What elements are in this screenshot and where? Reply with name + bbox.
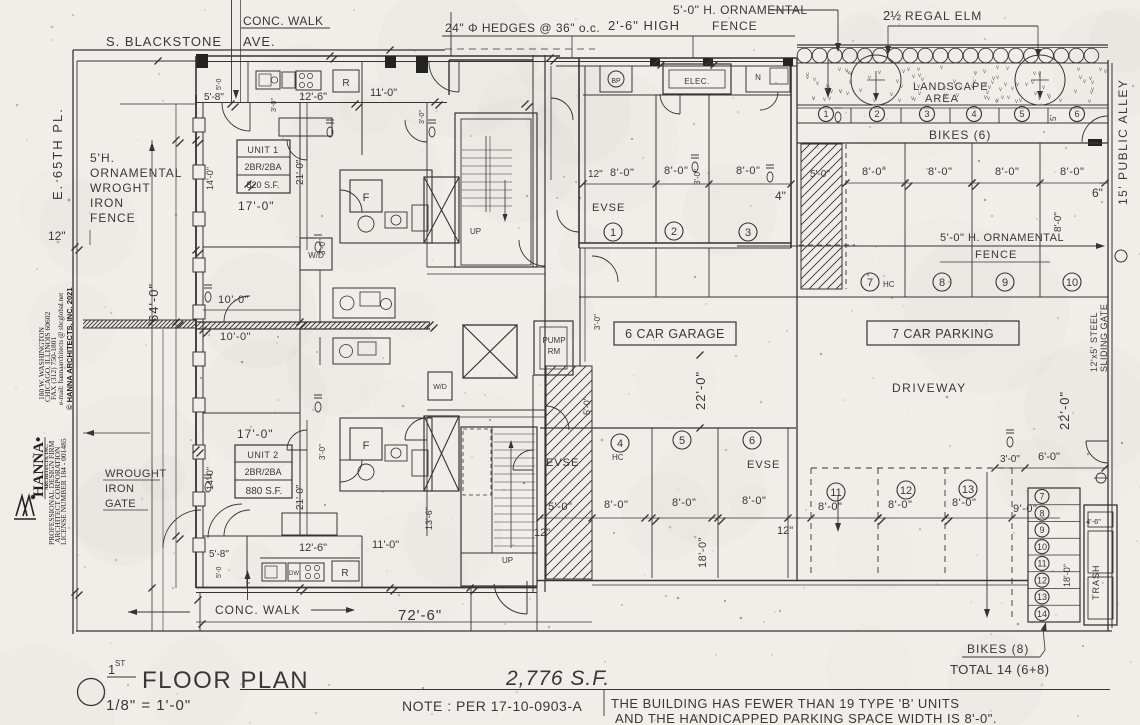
svg-text:12: 12 <box>1037 575 1047 585</box>
svg-text:R: R <box>342 78 349 89</box>
svg-text:v: v <box>917 67 920 73</box>
svg-text:v: v <box>1011 86 1014 92</box>
svg-text:3'-0": 3'-0" <box>1000 454 1020 465</box>
svg-text:NOTE : PER 17-10-0903-A: NOTE : PER 17-10-0903-A <box>402 698 583 714</box>
svg-text:5'-0": 5'-0" <box>582 397 592 415</box>
svg-text:v: v <box>806 72 809 78</box>
svg-text:v: v <box>999 87 1002 93</box>
svg-text:7: 7 <box>867 277 873 289</box>
svg-text:DRIVEWAY: DRIVEWAY <box>892 381 967 395</box>
svg-text:8'-0": 8'-0" <box>664 165 688 177</box>
svg-text:TOTAL 14 (6+8): TOTAL 14 (6+8) <box>950 662 1050 677</box>
svg-text:13: 13 <box>1037 592 1047 602</box>
svg-text:22'-0": 22'-0" <box>693 371 708 410</box>
svg-text:14: 14 <box>1037 609 1047 619</box>
svg-text:7 CAR PARKING: 7 CAR PARKING <box>892 327 994 341</box>
svg-text:AND THE HANDICAPPED PARKING SP: AND THE HANDICAPPED PARKING SPACE WIDTH … <box>615 711 997 725</box>
svg-text:72'-6": 72'-6" <box>398 607 442 624</box>
svg-text:v: v <box>846 91 849 97</box>
svg-text:3'-0": 3'-0" <box>318 239 327 255</box>
svg-text:2: 2 <box>874 109 879 119</box>
svg-text:v: v <box>898 98 901 104</box>
svg-text:12: 12 <box>900 485 912 497</box>
svg-text:v: v <box>1034 91 1037 97</box>
svg-text:21'-0": 21'-0" <box>295 484 306 510</box>
svg-text:v: v <box>1104 69 1107 75</box>
svg-text:HC: HC <box>612 453 624 462</box>
svg-text:v: v <box>812 96 815 102</box>
svg-text:v: v <box>838 67 841 73</box>
svg-text:WROGHT: WROGHT <box>90 181 151 195</box>
svg-text:11'-0": 11'-0" <box>370 87 397 99</box>
svg-text:e-mail: hannaarchitects @ sbcg: e-mail: hannaarchitects @ sbcglobal.net <box>57 293 65 405</box>
svg-text:6: 6 <box>749 435 755 447</box>
svg-text:v: v <box>828 96 831 102</box>
svg-text:UP: UP <box>502 556 513 565</box>
svg-text:ST: ST <box>115 659 125 668</box>
svg-text:v: v <box>1090 90 1093 96</box>
svg-text:R: R <box>341 568 348 579</box>
svg-text:DW: DW <box>289 571 299 577</box>
svg-text:CONC. WALK: CONC. WALK <box>215 603 301 617</box>
svg-text:EVSE: EVSE <box>592 202 625 214</box>
svg-text:5'H.: 5'H. <box>90 151 115 165</box>
svg-text:AVE.: AVE. <box>243 34 276 49</box>
svg-text:v: v <box>974 71 977 77</box>
svg-text:4: 4 <box>617 438 623 450</box>
svg-text:v: v <box>1099 67 1102 73</box>
svg-text:1: 1 <box>610 227 616 239</box>
svg-text:12": 12" <box>48 229 66 243</box>
svg-text:8'-0": 8'-0" <box>862 166 886 178</box>
svg-text:4: 4 <box>971 109 976 119</box>
svg-text:8'-0": 8'-0" <box>888 499 912 511</box>
svg-text:v: v <box>826 84 829 90</box>
svg-text:v: v <box>1031 80 1034 86</box>
svg-text:v: v <box>1048 95 1051 101</box>
svg-text:5'-0": 5'-0" <box>810 169 830 180</box>
svg-text:LANDSCAPE: LANDSCAPE <box>913 81 989 93</box>
svg-text:18'-0": 18'-0" <box>1062 564 1072 587</box>
svg-text:5: 5 <box>1019 109 1024 119</box>
svg-text:1/8" = 1'-0": 1/8" = 1'-0" <box>106 697 191 714</box>
svg-text:8'-0": 8'-0" <box>995 166 1019 178</box>
svg-text:v: v <box>987 96 990 102</box>
svg-text:5'-0: 5'-0 <box>216 78 223 90</box>
svg-text:v: v <box>1019 98 1022 104</box>
svg-text:v: v <box>1004 82 1007 88</box>
svg-text:11'-0": 11'-0" <box>372 539 399 551</box>
svg-text:12": 12" <box>777 525 793 537</box>
svg-text:v: v <box>1083 79 1086 85</box>
svg-text:12'-6": 12'-6" <box>299 542 327 554</box>
svg-text:v: v <box>907 67 910 73</box>
svg-text:PUMP: PUMP <box>542 336 565 345</box>
svg-text:CONC. WALK: CONC. WALK <box>243 14 324 28</box>
svg-text:SLIDING GATE: SLIDING GATE <box>1099 304 1109 372</box>
svg-text:FENCE: FENCE <box>712 19 758 33</box>
svg-text:17'-0": 17'-0" <box>237 427 274 441</box>
svg-text:v: v <box>890 92 893 98</box>
svg-text:8'-0": 8'-0" <box>736 165 760 177</box>
svg-text:S. BLACKSTONE: S. BLACKSTONE <box>106 34 222 49</box>
svg-text:15' PUBLIC ALLEY: 15' PUBLIC ALLEY <box>1116 79 1130 205</box>
svg-text:v: v <box>1059 98 1062 104</box>
svg-text:13'-6": 13'-6" <box>424 507 434 530</box>
svg-text:11: 11 <box>1037 559 1046 569</box>
svg-text:v: v <box>913 97 916 103</box>
svg-text:RM: RM <box>548 347 561 356</box>
svg-text:v: v <box>896 79 899 85</box>
svg-text:8'-0": 8'-0" <box>672 497 696 509</box>
svg-text:10'-0": 10'-0" <box>218 294 249 306</box>
svg-text:v: v <box>830 89 833 95</box>
svg-text:8'-0": 8'-0" <box>928 166 952 178</box>
svg-text:v: v <box>816 81 819 87</box>
svg-text:v: v <box>1077 67 1080 73</box>
svg-text:v: v <box>1042 85 1045 91</box>
svg-text:2½: 2½ <box>883 8 901 23</box>
svg-text:2,776 S.F.: 2,776 S.F. <box>505 667 610 690</box>
svg-text:820 S.F.: 820 S.F. <box>246 180 279 190</box>
svg-text:22'-0": 22'-0" <box>1057 391 1072 430</box>
svg-text:21'-0": 21'-0" <box>295 159 306 185</box>
svg-text:v: v <box>859 88 862 94</box>
svg-text:F: F <box>363 192 370 204</box>
svg-text:6: 6 <box>1074 109 1079 119</box>
svg-text:REGAL ELM: REGAL ELM <box>905 9 982 23</box>
svg-text:10: 10 <box>1066 277 1078 289</box>
svg-text:2'-6" HIGH: 2'-6" HIGH <box>608 18 680 33</box>
svg-text:3: 3 <box>924 109 929 119</box>
svg-text:5'-0: 5'-0 <box>216 566 223 578</box>
svg-text:880 S.F.: 880 S.F. <box>246 486 283 497</box>
svg-text:64'-0": 64'-0" <box>146 283 161 322</box>
svg-text:8'-0": 8'-0" <box>1053 212 1064 232</box>
svg-text:UNIT 2: UNIT 2 <box>247 450 278 460</box>
svg-text:v: v <box>1025 82 1028 88</box>
svg-text:ELEC.: ELEC. <box>684 77 710 86</box>
svg-text:UP: UP <box>470 227 481 236</box>
svg-text:UNIT 1: UNIT 1 <box>247 145 278 155</box>
svg-text:LICENSE NUMBER 184 - 001485: LICENSE NUMBER 184 - 001485 <box>59 438 68 545</box>
svg-text:6": 6" <box>1092 186 1103 200</box>
svg-text:12'x5' STEEL: 12'x5' STEEL <box>1089 312 1099 372</box>
svg-text:5: 5 <box>679 435 685 447</box>
svg-text:8: 8 <box>1039 508 1044 518</box>
svg-text:BIKES (8): BIKES (8) <box>967 642 1029 656</box>
svg-text:FENCE: FENCE <box>975 249 1017 261</box>
svg-text:2BR/2BA: 2BR/2BA <box>244 467 281 477</box>
svg-text:v: v <box>1079 75 1082 81</box>
svg-text:9: 9 <box>1002 277 1008 289</box>
svg-text:6 CAR GARAGE: 6 CAR GARAGE <box>625 327 725 341</box>
svg-text:18'-0": 18'-0" <box>697 537 709 568</box>
svg-text:v: v <box>902 69 905 75</box>
svg-text:13: 13 <box>962 484 974 496</box>
svg-text:17'-0": 17'-0" <box>238 199 275 213</box>
svg-text:v: v <box>1015 99 1018 105</box>
svg-text:BIKES (6): BIKES (6) <box>929 128 991 142</box>
svg-text:8: 8 <box>939 277 945 289</box>
svg-text:8'-0": 8'-0" <box>610 167 634 179</box>
svg-text:8'-0": 8'-0" <box>1060 166 1084 178</box>
svg-text:5'-0" H. ORNAMENTAL: 5'-0" H. ORNAMENTAL <box>940 232 1064 244</box>
svg-text:3'-0": 3'-0" <box>271 98 278 112</box>
svg-text:12": 12" <box>588 169 603 180</box>
svg-text:2BR/2BA: 2BR/2BA <box>244 162 281 172</box>
svg-text:THE BUILDING HAS FEWER THAN 19: THE BUILDING HAS FEWER THAN 19 TYPE 'B' … <box>611 696 959 711</box>
svg-text:v: v <box>983 69 986 75</box>
svg-text:10: 10 <box>1037 542 1047 552</box>
svg-text:F: F <box>363 440 370 452</box>
svg-text:EVSE: EVSE <box>747 459 780 471</box>
svg-text:HC: HC <box>883 280 895 289</box>
svg-text:v: v <box>1088 99 1091 105</box>
svg-text:v: v <box>992 76 995 82</box>
svg-text:14'-0": 14'-0" <box>205 167 215 190</box>
svg-text:3: 3 <box>745 227 751 239</box>
svg-text:12'-6": 12'-6" <box>299 91 327 103</box>
svg-text:v: v <box>839 89 842 95</box>
svg-text:© HANNA ARCHITECTS, INC. 2021: © HANNA ARCHITECTS, INC. 2021 <box>65 288 74 411</box>
svg-text:v: v <box>823 97 826 103</box>
svg-text:3'-0": 3'-0" <box>693 169 702 185</box>
svg-text:4'-6": 4'-6" <box>1086 517 1101 526</box>
svg-text:v: v <box>1033 71 1036 77</box>
svg-text:AREA: AREA <box>925 93 959 105</box>
svg-text:W/D: W/D <box>433 384 447 391</box>
svg-text:3'-0": 3'-0" <box>318 444 327 460</box>
svg-text:v: v <box>996 65 999 71</box>
svg-text:v: v <box>1089 76 1092 82</box>
svg-text:3'-0": 3'-0" <box>593 314 602 330</box>
svg-text:ORNAMENTAL: ORNAMENTAL <box>90 166 182 180</box>
svg-text:v: v <box>878 70 881 76</box>
svg-text:GATE: GATE <box>105 498 136 510</box>
svg-text:TRASH: TRASH <box>1091 564 1101 600</box>
svg-text:14'-0": 14'-0" <box>205 467 215 490</box>
svg-text:7: 7 <box>1039 492 1044 502</box>
svg-text:v: v <box>996 75 999 81</box>
svg-text:v: v <box>1038 72 1041 78</box>
svg-text:8'-0": 8'-0" <box>952 497 976 509</box>
svg-text:24" Φ HEDGES @ 36" o.c.: 24" Φ HEDGES @ 36" o.c. <box>445 21 600 35</box>
svg-text:5'-8": 5'-8" <box>204 92 224 103</box>
svg-text:9: 9 <box>1039 525 1044 535</box>
svg-text:8'-0": 8'-0" <box>818 501 842 513</box>
svg-text:v: v <box>1007 95 1010 101</box>
svg-text:WROUGHT: WROUGHT <box>105 468 167 480</box>
svg-text:IRON: IRON <box>90 196 124 210</box>
svg-text:1: 1 <box>823 109 828 119</box>
svg-text:8'-0": 8'-0" <box>604 499 628 511</box>
svg-text:v: v <box>1074 89 1077 95</box>
svg-text:BP: BP <box>611 78 621 85</box>
svg-text:FENCE: FENCE <box>90 211 136 225</box>
svg-text:E. 65TH PL.: E. 65TH PL. <box>50 107 65 200</box>
svg-text:6'-0": 6'-0" <box>1038 451 1060 463</box>
svg-text:IRON: IRON <box>105 483 135 495</box>
svg-text:11: 11 <box>830 487 841 499</box>
svg-text:5': 5' <box>1049 115 1058 121</box>
svg-text:8'-0": 8'-0" <box>742 495 766 507</box>
svg-text:v: v <box>940 65 943 71</box>
svg-text:5'-8": 5'-8" <box>209 549 229 560</box>
svg-text:v: v <box>1006 66 1009 72</box>
svg-text:N: N <box>755 73 761 82</box>
svg-text:v: v <box>1001 95 1004 101</box>
svg-text:v: v <box>996 98 999 104</box>
svg-text:4": 4" <box>775 189 786 203</box>
svg-text:10'-0": 10'-0" <box>220 331 251 343</box>
svg-text:3'-0": 3'-0" <box>419 110 426 124</box>
svg-text:v: v <box>912 74 915 80</box>
svg-text:2: 2 <box>671 226 677 238</box>
